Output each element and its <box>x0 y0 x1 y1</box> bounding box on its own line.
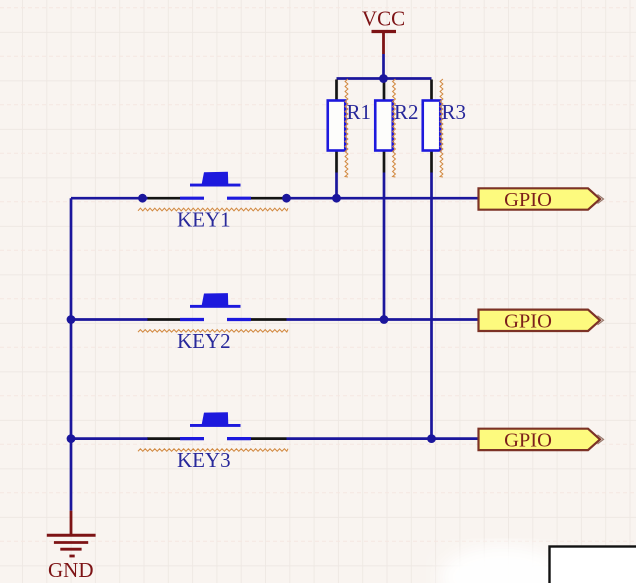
white fade blob <box>439 545 567 583</box>
switch KEY1 button cap <box>202 172 229 185</box>
wire from R3 bottom <box>430 173 433 439</box>
switch KEY3 button cap <box>202 412 229 425</box>
wire KEY2 row right to port <box>287 318 479 321</box>
switch KEY3 left pin <box>148 437 181 440</box>
resistor R1 top pin <box>335 80 338 101</box>
power port GND <box>47 511 96 582</box>
power port VCC <box>362 7 405 55</box>
svg-text:KEY3: KEY3 <box>177 448 231 472</box>
port GPIO1 <box>479 188 601 209</box>
switch KEY3 actuator bar <box>190 424 241 427</box>
junction <box>332 194 341 203</box>
switch KEY1 right pin <box>251 197 287 200</box>
wire KEY1 row right to port <box>287 197 479 200</box>
switch KEY2 left contact <box>180 318 204 321</box>
wire VCC stem blue <box>382 54 385 79</box>
junction <box>67 434 76 443</box>
wire from R2 bottom <box>383 173 386 320</box>
resistor R3 body <box>423 101 441 151</box>
switch KEY2 button cap <box>202 293 229 306</box>
switch KEY1 actuator bar <box>190 184 241 187</box>
switch KEY3 right contact <box>227 437 251 440</box>
junction <box>380 315 389 324</box>
wire KEY2 row left <box>71 318 148 321</box>
resistor R2 top pin <box>383 80 386 101</box>
wire from R1 bottom <box>335 173 338 199</box>
port GPIO3 <box>479 429 601 450</box>
wire KEY1 row left <box>71 197 148 200</box>
port GPIO2 <box>479 310 601 331</box>
wire KEY3 row left <box>71 437 148 440</box>
svg-text:R2: R2 <box>394 100 419 124</box>
wire top rail <box>337 77 432 80</box>
svg-text:GPIO: GPIO <box>504 311 552 333</box>
junction <box>138 194 147 203</box>
svg-text:GPIO: GPIO <box>504 430 552 452</box>
white overlay box bottom-right <box>550 547 636 583</box>
svg-text:KEY1: KEY1 <box>177 208 231 232</box>
resistor R1 bottom pin <box>335 151 338 173</box>
svg-text:R1: R1 <box>347 100 372 124</box>
warning squiggle R1 <box>345 79 348 177</box>
warning squiggle under KEY1 <box>138 208 288 211</box>
resistor R1 body <box>328 101 346 151</box>
switch KEY1 left contact <box>180 197 204 200</box>
resistor R3 top pin <box>430 80 433 101</box>
switch KEY2 right pin <box>251 318 287 321</box>
switch KEY1 left pin <box>148 197 181 200</box>
svg-text:KEY2: KEY2 <box>177 329 231 353</box>
wire KEY3 row right to port <box>287 437 479 440</box>
junction <box>379 74 388 83</box>
resistor R2 body <box>375 101 393 151</box>
warning squiggle under KEY2 <box>138 330 288 333</box>
warning squiggle R2 <box>393 79 396 177</box>
switch KEY3 left contact <box>180 437 204 440</box>
wire left bus vertical <box>70 198 73 511</box>
svg-text:GND: GND <box>48 558 94 582</box>
resistor R2 bottom pin <box>383 151 386 173</box>
warning squiggle R3 <box>440 79 443 177</box>
switch KEY2 left pin <box>148 318 181 321</box>
switch KEY2 actuator bar <box>190 305 241 308</box>
junction <box>427 434 436 443</box>
junction <box>282 194 291 203</box>
svg-text:VCC: VCC <box>362 7 405 31</box>
svg-text:R3: R3 <box>442 100 467 124</box>
switch KEY3 right pin <box>251 437 287 440</box>
svg-text:GPIO: GPIO <box>504 189 552 211</box>
switch KEY2 right contact <box>227 318 251 321</box>
switch KEY1 right contact <box>227 197 251 200</box>
warning squiggle under KEY3 <box>138 449 288 452</box>
junction <box>67 315 76 324</box>
resistor R3 bottom pin <box>430 151 433 173</box>
